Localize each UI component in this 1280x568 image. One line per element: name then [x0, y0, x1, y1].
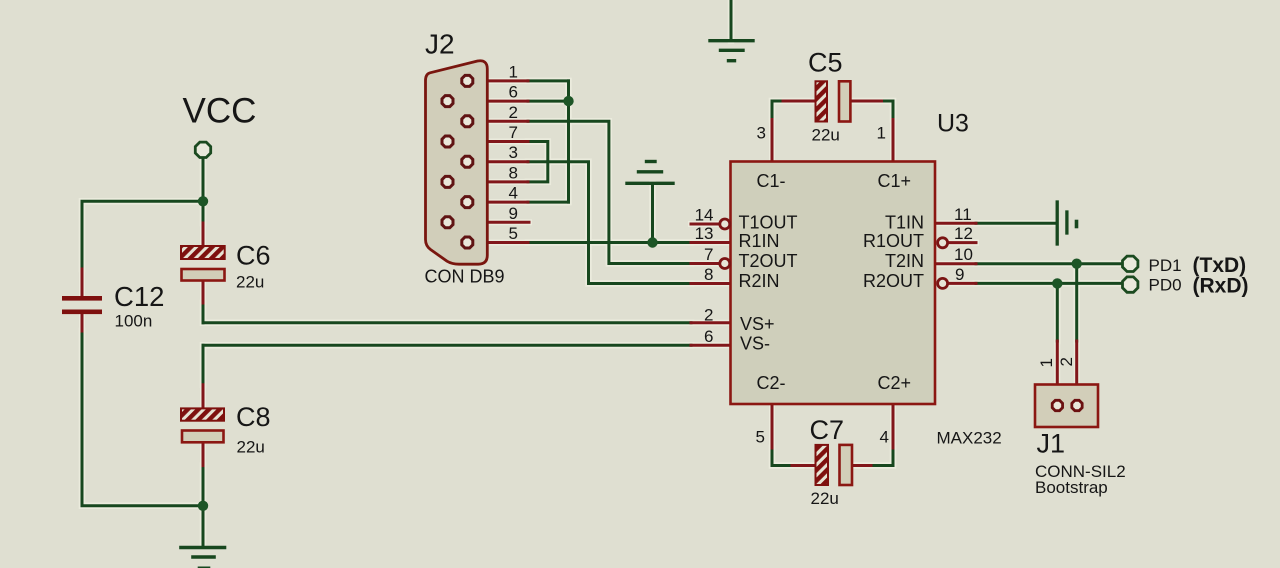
svg-text:7: 7 [704, 245, 713, 264]
svg-text:11: 11 [954, 205, 972, 224]
svg-text:U3: U3 [937, 110, 969, 138]
svg-text:R1IN: R1IN [739, 231, 780, 251]
svg-text:1: 1 [877, 124, 886, 143]
svg-text:C2-: C2- [757, 373, 786, 393]
svg-text:VCC: VCC [183, 92, 257, 131]
svg-text:2: 2 [509, 103, 518, 122]
node PD0 / J1 [1052, 278, 1062, 288]
wire VS- to C8 top [202, 345, 205, 384]
U3 pin 7 stub [691, 262, 721, 265]
J2 pin 4 lead [467, 201, 528, 204]
wire C12 bottom to ground junction [82, 331, 203, 506]
J2 pin 2 hole [462, 116, 473, 127]
wire DB9 pin3 to R2IN [528, 162, 691, 284]
svg-text:100n: 100n [115, 312, 153, 331]
capacitor C5 plain plate [839, 81, 850, 121]
J1 pin 2 hole [1072, 400, 1082, 410]
svg-text:J1: J1 [1037, 429, 1066, 459]
svg-text:1: 1 [1037, 358, 1056, 367]
U3 pin 12 bubble [938, 238, 948, 248]
C5 horizontal leads [783, 100, 882, 103]
node J2 pins 1-6 [563, 96, 573, 106]
wire DB9 pin6 to node [528, 100, 569, 103]
svg-text:2: 2 [1057, 357, 1076, 366]
ground bottom [181, 548, 225, 568]
J2 pin 8 lead [448, 180, 529, 183]
svg-text:VS+: VS+ [740, 314, 775, 334]
connector J1 CONN-SIL2 body [1035, 385, 1098, 428]
capacitor C8 plain plate [182, 431, 224, 443]
C7 horizontal leads [792, 464, 871, 467]
capacitor C7 plain plate [840, 445, 853, 485]
wire C7 pin5 vertical green part [771, 448, 774, 466]
wire VCC terminal to junction [202, 159, 205, 224]
U3 pin 9 bubble [938, 278, 948, 288]
svg-text:14: 14 [695, 206, 714, 225]
capacitor C8 hatched plate [181, 408, 224, 420]
U3 pin 13 stub [691, 241, 731, 244]
C7 pin 5 lead [771, 404, 774, 448]
svg-text:8: 8 [704, 265, 713, 284]
svg-text:9: 9 [955, 265, 964, 284]
capacitor C7 hatched plate [816, 445, 829, 485]
wire C6 bottom to VS+ [202, 303, 205, 323]
wire T1IN to ground [976, 222, 1056, 225]
svg-text:22u: 22u [812, 126, 840, 145]
J2 pin 4 hole [462, 197, 473, 208]
svg-text:T1IN: T1IN [885, 213, 924, 233]
J2 pin 5 lead [467, 241, 528, 244]
svg-text:12: 12 [954, 224, 973, 243]
wire DB9 pin5 to R1IN [528, 241, 691, 244]
node PD1 / J1 [1072, 259, 1082, 269]
wire C7 horizontal [772, 464, 893, 467]
svg-text:(RxD): (RxD) [1193, 274, 1249, 297]
terminal PD1 [1123, 256, 1138, 271]
node R1IN / ground [647, 237, 657, 247]
svg-text:C6: C6 [236, 241, 271, 271]
ground right (rotated, at T1IN) [1057, 202, 1076, 244]
svg-text:R1OUT: R1OUT [863, 231, 924, 251]
U3 pin 14 stub [691, 223, 721, 226]
wire PD0 node to J1 pin1 [1056, 283, 1059, 341]
capacitor C12 top plate [62, 296, 102, 301]
svg-text:Bootstrap: Bootstrap [1035, 478, 1108, 497]
wire PD1 node to J1 pin2 [1075, 264, 1078, 341]
svg-text:C7: C7 [810, 415, 845, 445]
svg-text:MAX232: MAX232 [937, 429, 1002, 448]
wire R2OUT to PD0 [976, 282, 1122, 285]
J2 pin 7 lead [448, 140, 529, 143]
ground top [710, 41, 753, 61]
U3 pin 10 stub [935, 262, 976, 265]
svg-text:C2+: C2+ [878, 373, 912, 393]
wire top ground stem [730, 0, 733, 41]
wire C5 horizontal [772, 100, 893, 103]
svg-text:5: 5 [756, 428, 765, 447]
svg-text:22u: 22u [237, 438, 265, 457]
wire DB9 pin4 to node [528, 201, 569, 204]
capacitor C6 plain plate [182, 269, 225, 281]
wire VS+ net [203, 321, 691, 324]
svg-text:C8: C8 [236, 402, 271, 432]
U3 pin 9 stub [949, 282, 976, 285]
J2 pin 7 hole [442, 136, 453, 147]
svg-text:T1OUT: T1OUT [739, 213, 798, 233]
svg-text:6: 6 [509, 83, 518, 102]
svg-text:3: 3 [509, 143, 518, 162]
J1 pin 1 lead [1056, 341, 1059, 399]
svg-text:T2IN: T2IN [885, 251, 924, 271]
svg-text:T2OUT: T2OUT [739, 251, 798, 271]
C6 leads [202, 223, 205, 303]
J1 pin 2 lead [1075, 341, 1078, 399]
wire DB9 pin1 to node [528, 79, 569, 82]
J1 pin 1 hole [1052, 400, 1062, 410]
C8 leads [202, 385, 205, 466]
svg-text:R2OUT: R2OUT [863, 271, 924, 291]
wire C5 pin1 vertical green part [892, 101, 895, 120]
node ground junction bottom [198, 501, 208, 511]
svg-text:CON DB9: CON DB9 [425, 267, 505, 287]
svg-text:C5: C5 [808, 48, 843, 78]
J2 pin 2 lead [467, 120, 528, 123]
capacitor C6 hatched plate [181, 246, 225, 259]
node VCC junction [198, 196, 208, 206]
C12 leads [81, 269, 84, 331]
svg-text:4: 4 [880, 428, 889, 447]
svg-text:J2: J2 [425, 29, 455, 60]
J2 pin 1 hole [462, 75, 473, 86]
svg-text:10: 10 [954, 245, 973, 264]
svg-text:9: 9 [509, 204, 518, 223]
connector J2 CON DB9 body [426, 61, 488, 264]
svg-text:7: 7 [509, 123, 518, 142]
svg-text:5: 5 [509, 224, 518, 243]
J2 pin 3 hole [462, 156, 473, 167]
U3 pin 12 stub [949, 241, 976, 244]
svg-text:1: 1 [509, 62, 518, 81]
wire node vertical pins 1-6-4 [567, 81, 570, 202]
svg-text:PD1: PD1 [1149, 256, 1182, 275]
U3 pin 2 stub [691, 321, 731, 324]
svg-text:PD0: PD0 [1149, 276, 1182, 295]
U3 pin 6 stub [691, 344, 731, 347]
J2 pin 6 lead [448, 100, 529, 103]
svg-text:22u: 22u [236, 273, 264, 292]
capacitor C5 hatched plate [816, 81, 828, 121]
U3 pin 8 stub [691, 282, 731, 285]
terminal PD0 [1123, 277, 1138, 292]
J2 pin 3 lead [467, 160, 528, 163]
U3 pin 7 bubble [720, 259, 730, 269]
J2 pin 6 hole [442, 96, 453, 107]
svg-text:R2IN: R2IN [739, 271, 780, 291]
svg-text:6: 6 [704, 327, 713, 346]
svg-text:3: 3 [757, 124, 766, 143]
svg-text:C12: C12 [114, 281, 164, 312]
svg-text:2: 2 [704, 305, 713, 324]
U3 pin 11 stub [935, 222, 976, 225]
svg-text:22u: 22u [811, 489, 839, 508]
wire DB9 pin2 to T2OUT [528, 121, 691, 263]
svg-text:4: 4 [509, 184, 518, 203]
C5 pin 1 lead [892, 120, 895, 162]
wire T2IN to PD1 [976, 262, 1122, 265]
J2 pin 5 hole [462, 237, 473, 248]
svg-text:13: 13 [695, 224, 714, 243]
svg-text:VS-: VS- [740, 334, 770, 354]
U3 pin 14 bubble [720, 219, 730, 229]
wire C8 bottom to ground [202, 466, 205, 546]
C5 pin 3 lead [771, 120, 774, 162]
wire VS- net [203, 344, 691, 347]
J2 pin 9 hole [442, 217, 453, 228]
ground middle (inverted, above R1IN wire) [627, 162, 673, 184]
wire C7 pin4 vertical green part [892, 448, 895, 466]
VCC power terminal [195, 142, 210, 157]
svg-text:8: 8 [509, 163, 518, 182]
J2 pin 9 lead [448, 221, 530, 224]
C7 pin 4 lead [892, 404, 895, 448]
svg-text:C1-: C1- [757, 171, 786, 191]
J2 pin 8 hole [442, 176, 453, 187]
J2 pin 1 lead [467, 79, 528, 82]
capacitor C12 bottom plate [62, 310, 102, 315]
wire C5 pin3 vertical green part [771, 101, 774, 120]
wire junction to C12 left branch [82, 201, 203, 269]
wire ground stem middle [651, 184, 654, 243]
IC U3 MAX232 body [731, 162, 936, 405]
wire DB9 pin7 to pin8 loop [528, 142, 548, 182]
svg-text:C1+: C1+ [878, 171, 912, 191]
